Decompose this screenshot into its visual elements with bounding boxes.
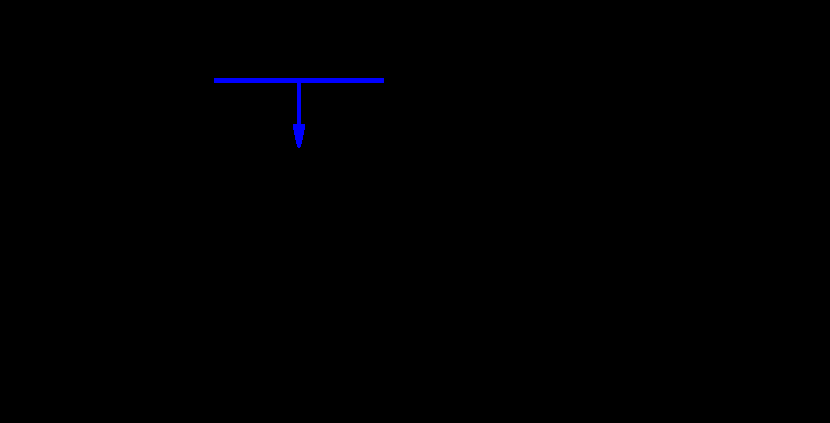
current arrow: arrowhead (stepped taper, pixel-exact rows) <box>293 124 305 148</box>
wire (highlighted blue horizontal net segment) <box>214 78 384 83</box>
current arrow (blue, pointing down from wire): stem <box>297 83 301 124</box>
